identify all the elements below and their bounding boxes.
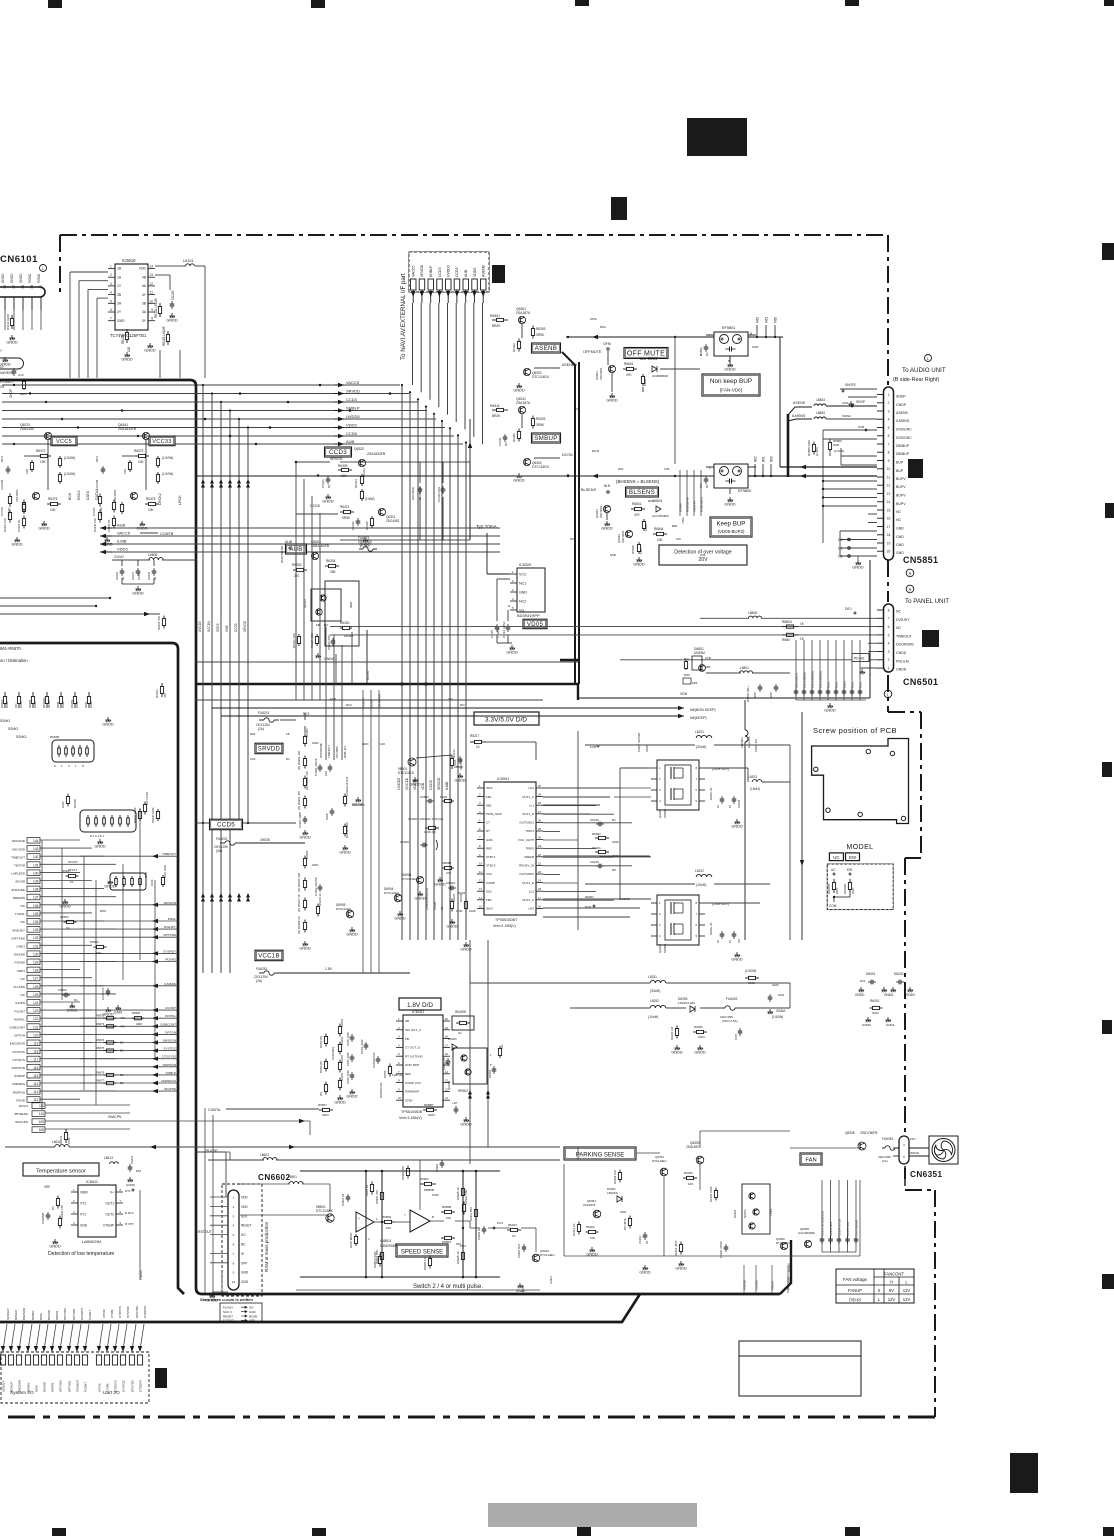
rotated wire labels FCONT CCDN DRAMPW [362,690,382,973]
svg-text:R1: R1 [504,442,508,446]
svg-text:(1/10W): (1/10W) [162,456,173,460]
svg-text:R6352 487K: R6352 487K [674,1240,678,1256]
svg-text:4: 4 [888,642,890,646]
svg-text:R6B1 LOCK: R6B1 LOCK [349,1232,353,1248]
svg-text:141: 141 [33,863,39,867]
svg-text:DTC114EU: DTC114EU [398,771,415,775]
svg-text:CCD3: CCD3 [438,267,442,277]
svg-text:R6302: R6302 [512,343,516,352]
svg-text:CN6501: CN6501 [903,677,938,687]
svg-text:3: 3 [888,409,890,413]
svg-text:NJM2904M: NJM2904M [380,1244,398,1248]
svg-text:VDD5: VDD5 [346,422,357,427]
svg-text:PWM_SKIP: PWM_SKIP [486,812,502,816]
svg-text:R5: R5 [612,868,616,872]
label CN5851 [903,555,938,577]
svg-text:OUT2: OUT2 [105,1213,114,1217]
IC6611 passives [41,1196,64,1249]
svg-text:FANLP: FANLP [771,1281,775,1290]
svg-text:GRO: GRO [322,1113,330,1117]
L6251 cluster [470,975,790,993]
svg-text:BLN2: BLN2 [592,449,600,453]
svg-text:ENCSSON: ENCSSON [10,1042,25,1046]
bend bundle rotated labels [198,620,247,632]
svg-text:ASENS: ASENS [793,401,806,405]
svg-text:VCC: VCC [486,872,493,876]
svg-text:RCMLP: RCMLP [14,1310,18,1320]
svg-text:SYSTOC: SYSTOC [163,1047,176,1051]
svg-text:L6101: L6101 [183,259,194,263]
transformer EF5801 [699,326,756,371]
svg-text:R6B0: R6B0 [782,638,790,642]
svg-text:R6674: R6674 [96,1038,105,1042]
svg-text:CN6101: CN6101 [0,254,38,265]
svg-text:PWMSKIP: PWMSKIP [405,1090,419,1094]
svg-text:(1/10M): (1/10M) [834,449,844,453]
svg-text:GNDD: GNDD [724,502,735,506]
registration mark bottom 5 [1103,1527,1114,1536]
svg-text:140: 140 [33,871,39,875]
svg-text:10: 10 [479,861,483,865]
svg-text:VD5+44: VD5+44 [693,501,697,512]
svg-text:RO1: RO1 [851,682,855,688]
svg-text:GNDD: GNDD [852,565,863,569]
thick bus top-left corner [0,380,791,1294]
svg-text:GR2: GR2 [778,993,785,997]
svg-text:C6333 R01: C6333 R01 [327,634,331,650]
label CN6351 [905,1166,942,1186]
svg-text:FANCONT: FANCONT [787,1276,791,1290]
EF5800 secondary taps [754,456,774,477]
svg-text:118: 118 [33,1050,38,1054]
label To AUDIO UNIT [893,355,946,384]
svg-text:GNDD: GNDD [166,318,177,322]
svg-text:RSVD: RSVD [16,1098,25,1102]
svg-text:1B: 1B [117,267,122,271]
svg-text:C6!34 (2BV): C6!34 (2BV) [502,621,506,638]
svg-text:R6841: R6841 [632,502,642,506]
svg-text:SYSTOC: SYSTOC [122,1380,126,1392]
BLSENS vertical label column [679,470,704,524]
svg-text:EW: EW [849,855,857,860]
svg-text:2SA1587: 2SA1587 [686,1145,699,1149]
svg-text:100K: 100K [150,879,154,886]
registration mark right 2 [1105,503,1114,518]
svg-text:7: 7 [110,317,112,321]
svg-text:5: 5 [888,633,890,637]
state when written box [200,1297,262,1323]
svg-text:H: H [890,1279,893,1284]
svg-text:CTOGPS: CTOGPS [139,1380,143,1392]
board border jog 3 [905,1190,935,1417]
svg-text:100K: 100K [61,701,65,708]
svg-text:GND TRIP: GND TRIP [405,1063,419,1067]
svg-text:C6618: C6618 [147,571,151,580]
svg-text:VACC5: VACC5 [117,531,131,536]
svg-text:C6901 R1: C6901 R1 [341,1193,345,1206]
svg-text:SCNSLP: SCNSLP [2,1380,6,1392]
svg-text:R6!: R6! [460,703,465,707]
svg-text:GUVD: GUVD [114,555,124,559]
bus bend-down bundle [196,384,296,973]
svg-text:GNDD: GNDD [346,1094,357,1098]
svg-text:110K (D): 110K (D) [392,1073,403,1077]
svg-text:C6353 R01: C6353 R01 [829,1221,833,1236]
svg-text:R6902 47C: R6902 47C [401,1166,405,1180]
svg-text:SCK 0: SCK 0 [223,1310,232,1314]
svg-text:VDD: VDD [139,267,147,271]
svg-text:VREFB: VREFB [524,855,534,859]
svg-text:RCM: RCM [39,1313,43,1320]
board border bottom edge [8,1416,935,1419]
svg-text:10: 10 [716,939,720,943]
svg-text:TIMEOUT: TIMEOUT [11,855,25,859]
svg-text:SB1: SB1 [486,803,492,807]
svg-text:BCK: BCK [68,492,72,500]
svg-text:C6617: C6617 [131,571,135,580]
svg-text:D62: D62 [618,467,624,471]
thick OFFMUTE drop [562,352,575,684]
svg-text:51K: 51K [386,1226,391,1230]
svg-text:R6332: R6332 [292,563,302,567]
svg-text:(2A): (2A) [256,979,262,983]
svg-text:C6208 CCD1231 47K(CH): C6208 CCD1231 47K(CH) [408,817,443,821]
svg-text:4A: 4A [142,284,147,288]
svg-text:VD8: VD8 [680,692,687,696]
svg-text:(2LO7B1B3): (2LO7B1B3) [652,514,669,518]
label Switch 2 / 4 or multi pulse [413,1283,526,1293]
regulator VCC5 cluster Q6370 [15,423,77,530]
svg-text:FAN voltage: FAN voltage [843,1277,867,1282]
svg-text:REMIN: REMIN [31,1311,35,1320]
svg-text:138: 138 [33,888,39,892]
L6252 D6253 FU6252 cluster [570,969,790,1054]
svg-text:RT: RT [486,829,490,833]
svg-text:17: 17 [887,525,891,529]
svg-text:CPUNOT: CPUNOT [80,1308,84,1320]
svg-text:4CDB: 4CDB [47,700,51,708]
svg-text:GNDD: GNDD [855,993,865,997]
svg-text:R6!54 (D): R6!54 (D) [319,1061,323,1073]
svg-text:27: 27 [538,810,542,814]
svg-text:Non keep BUP: Non keep BUP [710,378,752,385]
svg-text:H1: H1 [458,1031,462,1035]
svg-text:OUTGND2: OUTGND2 [519,872,534,876]
svg-text:LL1: LL1 [529,803,534,807]
connector CN6501 [877,604,914,672]
svg-text:9: 9 [888,459,890,463]
svg-text:GRD: GRD [312,863,318,867]
svg-text:SRVDD: SRVDD [330,457,343,461]
svg-text:BSS: BSS [100,909,106,913]
svg-text:WTOC: WTOC [98,1383,102,1392]
svg-text:MODEL: MODEL [847,844,874,851]
svg-text:BUPV: BUPV [896,502,906,506]
svg-text:C6!35: C6!35 [490,630,494,638]
svg-text:FU6201: FU6201 [258,711,270,715]
svg-text:2SC4081: 2SC4081 [386,519,400,523]
svg-text:CCD3: CCD3 [329,449,347,456]
svg-text:18: 18 [887,533,891,537]
svg-text:4Y: 4Y [142,293,147,297]
coil L6613 cap C6614 [104,1155,142,1187]
svg-text:R1: R1 [327,484,331,488]
svg-text:VCC: VCC [519,573,527,577]
svg-text:IC6611: IC6611 [86,1180,98,1184]
svg-text:1: 1 [110,265,112,269]
svg-text:LO2/1B: LO2/1B [95,480,99,490]
label box FAN [800,1153,822,1165]
IC6251 right cluster R64000 [442,1010,504,1093]
R6664 resistor [155,683,167,698]
svg-text:4R7/2B): 4R7/2B) [459,759,463,770]
svg-text:R6324: R6324 [354,479,358,488]
svg-text:VCC33: VCC33 [152,439,172,445]
svg-text:GRD: GRD [136,1022,142,1026]
svg-text:RO1: RO1 [835,682,839,688]
BUP feed line [196,474,714,478]
svg-text:WFNG: WFNG [910,1151,920,1155]
svg-text:R6253: R6253 [340,1018,344,1027]
svg-text:R6303: R6303 [536,417,546,421]
svg-text:C6817 337R6B: C6817 337R6B [637,733,641,752]
svg-text:C6!: C6! [448,697,453,701]
svg-text:10: 10 [728,804,732,808]
svg-text:NC: NC [21,977,26,981]
svg-text:DTC114EU: DTC114EU [776,1241,790,1245]
svg-text:R6212 100K: R6212 100K [345,822,349,838]
svg-text:R6677: R6677 [96,1079,105,1083]
NAVI vertical drop wires [413,303,483,444]
svg-text:(1.0A): (1.0A) [360,544,369,548]
svg-text:BSSRG: BSSRG [43,1381,47,1392]
svg-text:R6B07: R6B07 [442,1240,452,1244]
label Detection of low temperature [48,1251,114,1257]
svg-text:51K: 51K [446,1216,451,1220]
svg-text:B: B [432,1215,434,1219]
svg-text:SHINUKE: SHINUKE [11,888,25,892]
parking sense mosfet block [733,1184,815,1250]
svg-text:BLSENS: BLSENS [581,488,596,492]
svg-text:17: 17 [445,1043,449,1047]
connector NAVI I/F dashed box [409,252,489,292]
svg-text:OUT2_D: OUT2_D [522,881,535,885]
svg-text:C6903 R1: C6903 R1 [477,1227,481,1240]
svg-text:2A: 2A [117,302,122,306]
svg-text:10K: 10K [590,1236,595,1240]
svg-text:100K: 100K [432,1193,439,1197]
svg-text:121: 121 [33,1025,39,1029]
svg-text:5: 5 [110,299,112,303]
IC6901 left passives [400,795,476,951]
svg-text:R6111 GRD: R6111 GRD [6,313,10,330]
svg-text:L6602: L6602 [260,1153,269,1157]
svg-text:Detection of low temperature: Detection of low temperature [48,1251,114,1257]
svg-text:(VD05-BUP3): (VD05-BUP3) [718,529,745,534]
svg-text:(10uH): (10uH) [648,1015,658,1019]
svg-text:-: - [358,1225,359,1229]
svg-text:117: 117 [33,1058,38,1062]
svg-text:29: 29 [538,793,542,797]
svg-text:100K: 100K [89,701,93,708]
svg-text:Screw position of PCB: Screw position of PCB [813,726,897,735]
svg-text:Vref=1.1B5(V): Vref=1.1B5(V) [493,924,516,928]
svg-text:100K: 100K [644,524,648,531]
wire web around DD1 [543,731,790,940]
svg-text:OFM: OFM [603,342,611,346]
svg-text:(Vp-p): (Vp-p) [849,1297,861,1302]
svg-text:R6697: R6697 [592,832,601,836]
svg-text:C65: C65 [664,467,670,471]
label box Temperature sensor [23,1163,99,1176]
svg-text:270: 270 [294,574,300,578]
extra tiny labels cluster 1 [570,317,758,557]
IC6611 temperature IC [44,1180,134,1244]
svg-text:DTC114WK: DTC114WK [316,1209,334,1213]
svg-text:R6923 B5K: R6923 B5K [375,1250,379,1264]
svg-text:144: 144 [33,839,39,843]
svg-text:R6205: R6205 [305,850,309,859]
svg-text:GND: GND [896,527,904,531]
svg-text:GNDD: GNDD [1,273,5,283]
non keep feed line [566,335,714,464]
svg-text:R6201: R6201 [305,728,309,737]
svg-text:SNACPN: SNACPN [15,1120,28,1124]
svg-text:100K: 100K [33,701,37,708]
thick bus segment near keep bup [560,659,578,661]
svg-text:M61: M61 [765,317,769,323]
svg-text:GNDD: GNDD [601,526,612,530]
svg-text:BR2K: BR2K [492,324,501,328]
parking sense wires [564,1131,860,1256]
label box 1.8V D/D [399,998,441,1010]
svg-text:FANUP: FANUP [848,1288,862,1293]
svg-text:PSSNS: PSSNS [15,961,26,965]
left edge lower wires [0,597,166,630]
svg-text:GNDD: GNDD [513,478,524,482]
svg-text:VACC5: VACC5 [346,380,360,385]
svg-text:2: 2 [110,273,112,277]
svg-text:BN07: BN07 [843,680,847,688]
svg-text:10K: 10K [96,951,101,955]
svg-text:100K: 100K [5,701,9,708]
svg-text:on / Distination: on / Distination [0,658,28,663]
svg-text:C6807: C6807 [420,795,429,799]
svg-text:114: 114 [33,1082,38,1086]
VCC18 tap [195,950,410,983]
svg-text:C625 103P: C625 103P [346,1052,350,1066]
svg-text:47K: 47K [634,513,641,517]
svg-text:REF: REF [405,1072,411,1076]
mid drop lines from bus to DD blocks [296,462,320,700]
svg-text:1.8V D/D: 1.8V D/D [407,1002,433,1009]
svg-text:47K: 47K [626,373,633,377]
svg-text:R6104 L61B3: R6104 L61B3 [154,298,158,318]
svg-text:NC: NC [21,920,26,924]
svg-text:C6906 R01: C6906 R01 [517,1243,521,1258]
svg-text:3.3V/5.0V D/D: 3.3V/5.0V D/D [485,717,527,724]
svg-text:LAPLESS: LAPLESS [11,872,25,876]
svg-text:1B: 1B [286,732,290,736]
svg-text:DTC114EU: DTC114EU [384,891,399,895]
svg-text:GNDD: GNDD [132,591,143,595]
svg-text:ASN: ASN [842,401,848,405]
svg-text:Q6202: Q6202 [658,809,662,818]
svg-text:R6673: R6673 [96,1022,105,1026]
svg-text:D1: D1 [705,352,709,356]
svg-text:GNDD: GNDD [94,844,105,848]
NAVI pin rotated labels [412,264,486,277]
registration mark right 1 [1102,243,1114,260]
svg-text:TIMEOUT: TIMEOUT [896,634,913,638]
registration mark bottom 4 [845,1527,860,1536]
svg-text:R692B 1K: R692B 1K [456,1251,460,1264]
svg-text:R6106: R6106 [121,334,125,344]
svg-text:CN5851: CN5851 [903,555,938,565]
svg-text:GNDD: GNDD [6,340,17,344]
svg-text:ASENS: ASENS [896,411,909,415]
screw position of PCB outline [812,726,909,824]
svg-text:GPSTOC: GPSTOC [135,1306,139,1318]
label System I/O [10,1390,34,1396]
svg-text:40: 40 [39,285,43,289]
svg-text:10K: 10K [50,508,57,512]
svg-text:DVEJKY: DVEJKY [896,618,910,622]
svg-text:ORC: ORC [851,888,855,894]
svg-text:LH2: LH2 [528,907,534,911]
svg-text:GNDD: GNDD [434,882,445,886]
svg-text:N6(KEEP): N6(KEEP) [690,716,707,720]
svg-text:DCON: DCON [366,671,370,680]
svg-text:111: 111 [39,1104,44,1108]
svg-text:[FAN-VD6]: [FAN-VD6] [720,388,742,393]
svg-text:C6206: C6206 [433,901,437,910]
PULSE long wire [196,1152,226,1197]
svg-text:B2: B2 [120,1041,124,1045]
registration mark top 1 [48,0,62,8]
svg-text:3: 3 [110,282,112,286]
svg-text:R6302: R6302 [512,433,516,442]
svg-text:TIMEOUT: TIMEOUT [327,745,331,758]
svg-text:R6334: R6334 [326,559,336,563]
svg-text:R6!B: R6!B [144,872,148,878]
svg-text:137: 137 [33,896,39,900]
svg-text:/DVEJKY: /DVEJKY [12,928,25,932]
svg-text:PD.M2: PD.M2 [854,657,864,661]
svg-text:R6B08: R6B08 [442,1205,452,1209]
svg-text:IRGPNG: IRGPNG [13,1090,26,1094]
svg-text:CONTB: CONTB [160,532,174,536]
C6311 cap [498,434,508,446]
svg-text:WRSKIN: WRSKIN [164,901,176,905]
svg-text:BUPV: BUPV [896,485,906,489]
svg-text:IC6610: IC6610 [122,258,136,263]
svg-text:OFFMUTE: OFFMUTE [583,350,602,354]
svg-text:LL2: LL2 [529,889,534,893]
svg-text:C625 103P: C625 103P [346,1070,350,1084]
svg-text:5R0K: 5R0K [342,516,351,520]
registration mark top 4 [845,0,859,6]
svg-text:LRCK2: LRCK2 [158,493,162,505]
black marker C near CN5851 [908,459,923,478]
svg-text:SHDP: SHDP [896,395,906,399]
svg-text:2SD1760FB: 2SD1760FB [860,1131,877,1135]
svg-text:GNDD: GNDD [409,782,420,786]
coil L6611 [5,1140,560,1149]
svg-text:10K: 10K [148,508,155,512]
svg-text:D: D [54,764,56,768]
svg-text:C6355 R01: C6355 R01 [846,1221,850,1236]
